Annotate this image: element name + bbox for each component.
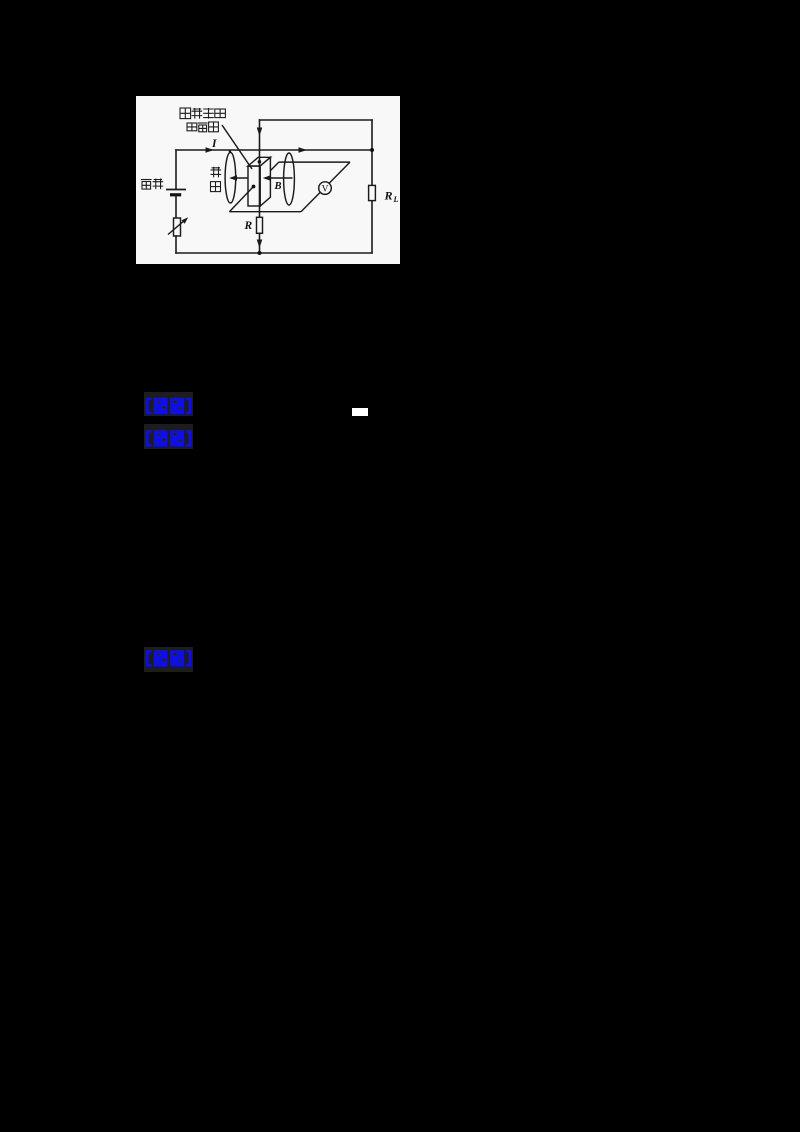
measuring plane parallelogram bottom edge <box>229 211 301 213</box>
hall element box: front face <box>248 166 260 206</box>
hall element box: right face <box>260 157 270 206</box>
plane left edge lower segment to front electrode <box>229 187 253 212</box>
svg-text:R: R <box>244 220 253 232</box>
svg-text:L: L <box>393 195 399 204</box>
junction dot on hall box top face <box>258 160 262 164</box>
wire: bottom rail <box>176 252 372 254</box>
wire: right vertical branch (through RL) <box>371 120 373 253</box>
wire: top rail <box>260 119 373 121</box>
label 霍尔元件 (fake glyphs) <box>180 108 191 119</box>
current arrow on wire I (right) <box>299 147 308 153</box>
B field arrow right (points left) <box>265 177 293 179</box>
small joint dot coil/wire <box>229 150 231 152</box>
coil left ellipse 线圈 <box>225 152 236 203</box>
wire: left vertical branch top (source) <box>175 150 177 189</box>
svg-text:R: R <box>384 189 393 203</box>
blue label 【点评】 <box>144 647 193 677</box>
blue label 【解析】 <box>144 424 193 454</box>
hall element box: top face <box>248 157 270 166</box>
plane top edge <box>279 161 350 163</box>
plane left edge upper segment behind box <box>270 162 278 171</box>
white answer dash <box>352 408 368 416</box>
pointer line from label 前表面 to front face <box>222 125 252 169</box>
rheostat (variable resistor) <box>174 218 181 236</box>
wire: rheostat to bottom rail <box>175 236 177 253</box>
svg-text:B: B <box>274 181 282 192</box>
wire: current loop wire I (y=54) <box>176 149 372 151</box>
battery 电源 symbol <box>166 189 186 191</box>
junction dot at wire I / right vertical <box>370 148 374 152</box>
label 线圈 (fake glyphs, stacked) <box>211 167 222 178</box>
current arrow on wire I (left) <box>206 147 215 153</box>
down arrow on center vertical <box>257 128 263 137</box>
junction dot on bottom rail <box>258 251 262 255</box>
label 前表面 (fake glyphs) <box>187 123 197 131</box>
electrode dot on hall box front face <box>252 185 256 189</box>
resistor R body <box>257 217 263 233</box>
B field arrow left (points left) <box>231 177 248 179</box>
center vertical wire through hall box down to R <box>259 120 261 217</box>
coil right ellipse <box>284 153 295 205</box>
load resistor RL body <box>369 185 376 200</box>
circuit figure panel <box>136 96 400 264</box>
voltmeter V <box>319 182 332 195</box>
plane right edge (through voltmeter) <box>301 162 350 212</box>
blue label 【答案】 <box>144 392 193 421</box>
wire: battery to rheostat <box>175 195 177 218</box>
label 电源 (fake glyphs) <box>141 179 152 181</box>
wire: R to bottom rail with down arrow <box>259 233 261 253</box>
svg-text:I: I <box>211 138 217 150</box>
svg-text:V: V <box>322 185 329 195</box>
